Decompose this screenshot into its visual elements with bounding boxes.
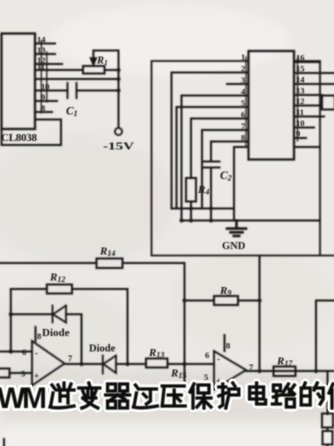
svg-text:9: 9 — [41, 92, 45, 102]
caption char bian — [79, 383, 100, 408]
node lineA R4 — [189, 207, 193, 211]
resistor R10 body left edge — [0, 369, 10, 378]
wire U2 pin10 stub — [294, 127, 314, 129]
wire R9 right vertical — [259, 256, 261, 372]
wire pin 10 line U1 to bus — [35, 78, 119, 80]
node lineA C2 — [209, 207, 213, 211]
svg-text:WM: WM — [0, 382, 47, 415]
wire U4 output — [246, 370, 334, 372]
svg-text:10: 10 — [41, 82, 50, 92]
svg-text:6: 6 — [241, 110, 245, 120]
node bus C2 — [209, 219, 213, 223]
IC U2 body — [249, 51, 295, 160]
wire pin 8 stub U1 — [35, 100, 57, 102]
resistor R4 body — [186, 178, 196, 202]
inner box edge — [234, 147, 320, 221]
svg-text:9: 9 — [296, 129, 300, 139]
op-amp U3 — [32, 341, 65, 386]
svg-text:2: 2 — [241, 64, 245, 74]
svg-text:14: 14 — [37, 35, 46, 45]
ground GND — [227, 221, 246, 236]
diode D1 — [53, 306, 67, 323]
op-amp U4 — [214, 351, 246, 390]
resistor R13 body — [146, 359, 168, 368]
caption char dian — [250, 383, 266, 404]
caption char bao — [190, 384, 211, 408]
resistor R16 body — [322, 414, 333, 428]
wire pin 13 stub U1 — [35, 53, 55, 55]
wire U3 inverting input — [0, 351, 32, 353]
wire R4 to bus — [190, 202, 192, 221]
node right feedback — [314, 369, 318, 373]
svg-text:-: - — [217, 354, 220, 364]
wire R12 line — [11, 289, 128, 364]
svg-text:Diode: Diode — [89, 344, 116, 355]
svg-text:CL8038: CL8038 — [1, 132, 38, 144]
svg-text:-: - — [35, 348, 38, 358]
svg-text:-15V: -15V — [103, 141, 134, 153]
wire U2 pin16 stub — [294, 61, 320, 63]
node R12 output — [125, 362, 129, 366]
svg-text:8: 8 — [41, 103, 45, 113]
capacitor C2 plates — [203, 162, 220, 168]
wire pin 11 line U1 to R1 — [35, 69, 119, 71]
mark bottom left — [3, 439, 5, 446]
wire U3 noninverting input — [10, 372, 33, 374]
svg-text:16: 16 — [296, 53, 305, 63]
caption char hu — [219, 383, 239, 408]
resistor R1 body — [83, 66, 105, 74]
svg-text:15: 15 — [296, 64, 305, 74]
node input junction — [9, 349, 13, 353]
svg-text:5: 5 — [21, 369, 25, 379]
node R9 right — [257, 298, 261, 302]
wire U2 pin6 to R4 — [191, 119, 248, 179]
wire R1 wiper loop — [93, 50, 118, 52]
wire U2 pin9 stub — [294, 137, 306, 139]
svg-text:3: 3 — [241, 75, 245, 85]
node D1 output — [79, 362, 83, 366]
node bus pin4 — [180, 219, 184, 223]
wire U2 pin15 stub — [294, 72, 334, 74]
svg-text:6: 6 — [22, 347, 26, 357]
wire ground bus — [182, 220, 321, 222]
wire U2 pin4 — [182, 96, 249, 221]
wire pin stub U1 lower — [35, 111, 52, 113]
pin tick column U2 — [246, 57, 298, 146]
caption char qi — [106, 384, 130, 408]
wire R14 line — [0, 263, 185, 364]
svg-text:8: 8 — [226, 341, 230, 351]
wire pin 12 stub U1 — [35, 63, 62, 65]
caption char zuo — [329, 383, 334, 408]
wire U2 pin3 stub — [227, 83, 248, 85]
svg-text:Diode: Diode — [42, 327, 70, 339]
svg-text:12: 12 — [296, 96, 305, 106]
svg-text:13: 13 — [296, 86, 305, 96]
wire D2 to R13 — [116, 363, 146, 365]
svg-text:10: 10 — [296, 118, 305, 128]
svg-text:GND: GND — [222, 241, 246, 252]
node U4 output — [257, 369, 261, 373]
capacitor C1 plates — [68, 83, 77, 98]
svg-text:6: 6 — [205, 350, 209, 360]
node bus pin10 — [117, 77, 121, 81]
svg-text:8: 8 — [37, 331, 41, 341]
resistor R14 body — [97, 259, 123, 269]
resistor R9 body — [214, 296, 238, 305]
node R9 left — [182, 298, 186, 302]
wire U2 pin13 stub — [294, 94, 322, 96]
svg-text:8: 8 — [241, 133, 245, 143]
svg-text:+: + — [34, 371, 39, 381]
wire U2 pin11 stub — [294, 116, 324, 118]
wire R9 feedback line — [185, 300, 260, 302]
IC U1 label box — [2, 120, 62, 146]
wire pin 9 line U1 to C1 — [35, 90, 119, 92]
resistor R16 lead — [327, 371, 329, 414]
node R14 branch — [182, 362, 186, 366]
wire U3 pin8 stub — [35, 327, 37, 341]
diode D2 — [103, 356, 116, 374]
potentiometer R1 wiper arrow — [91, 51, 96, 65]
node bus R4 — [189, 219, 193, 223]
wire right edge feedback — [316, 301, 334, 372]
node diode junction — [9, 312, 13, 316]
svg-text:14: 14 — [296, 75, 305, 85]
wire C2 to bus — [210, 168, 212, 221]
svg-text:13: 13 — [37, 45, 46, 55]
caption black pass — [50, 383, 334, 408]
wire U2 pin2 — [172, 73, 249, 209]
resistor R5 body right edge — [322, 96, 334, 110]
wire U2 pin14 stub — [294, 83, 334, 85]
wire pin 14 stub U1 — [35, 43, 55, 45]
wire U2 pin5 — [177, 107, 249, 209]
svg-text:5: 5 — [241, 98, 245, 108]
terminal -15V — [115, 128, 122, 135]
wire line A — [172, 208, 235, 210]
sub-circuit outer box U2 — [152, 61, 334, 256]
svg-text:1: 1 — [241, 52, 245, 62]
svg-text:11: 11 — [296, 107, 304, 117]
node bus pin9 — [117, 89, 121, 93]
caption char ni — [50, 383, 74, 408]
resistor R12 body — [47, 285, 72, 294]
caption char de — [301, 383, 323, 405]
caption white outline pass — [50, 383, 334, 408]
wire diode D1 line — [11, 314, 82, 364]
caption char ya — [162, 386, 185, 406]
svg-text:11: 11 — [37, 62, 45, 72]
resistor R15 lead — [184, 364, 186, 383]
wire feedback vertical left — [10, 289, 12, 352]
wire bus to -15V — [118, 51, 120, 128]
wire U3 output — [65, 363, 103, 365]
node bus pin11 — [117, 68, 121, 72]
caption char guo — [133, 385, 157, 408]
svg-text:R1: R1 — [96, 56, 108, 68]
caption char lu — [272, 384, 294, 407]
wire R18 bottom — [327, 428, 329, 446]
wire U2 pin12 stub — [294, 105, 322, 107]
resistor R18 body bottom — [323, 431, 333, 445]
wire U2 pin7 — [202, 130, 248, 209]
wire R13 to op-amp U4 — [168, 363, 215, 365]
wire U4 pin8 stub — [224, 335, 226, 351]
wire U2 pin8 to C2 — [211, 142, 248, 162]
resistor R17 body — [274, 367, 296, 377]
op-amp U1 ICL8038 body — [2, 34, 36, 130]
pin tick column U1 — [41, 41, 47, 113]
